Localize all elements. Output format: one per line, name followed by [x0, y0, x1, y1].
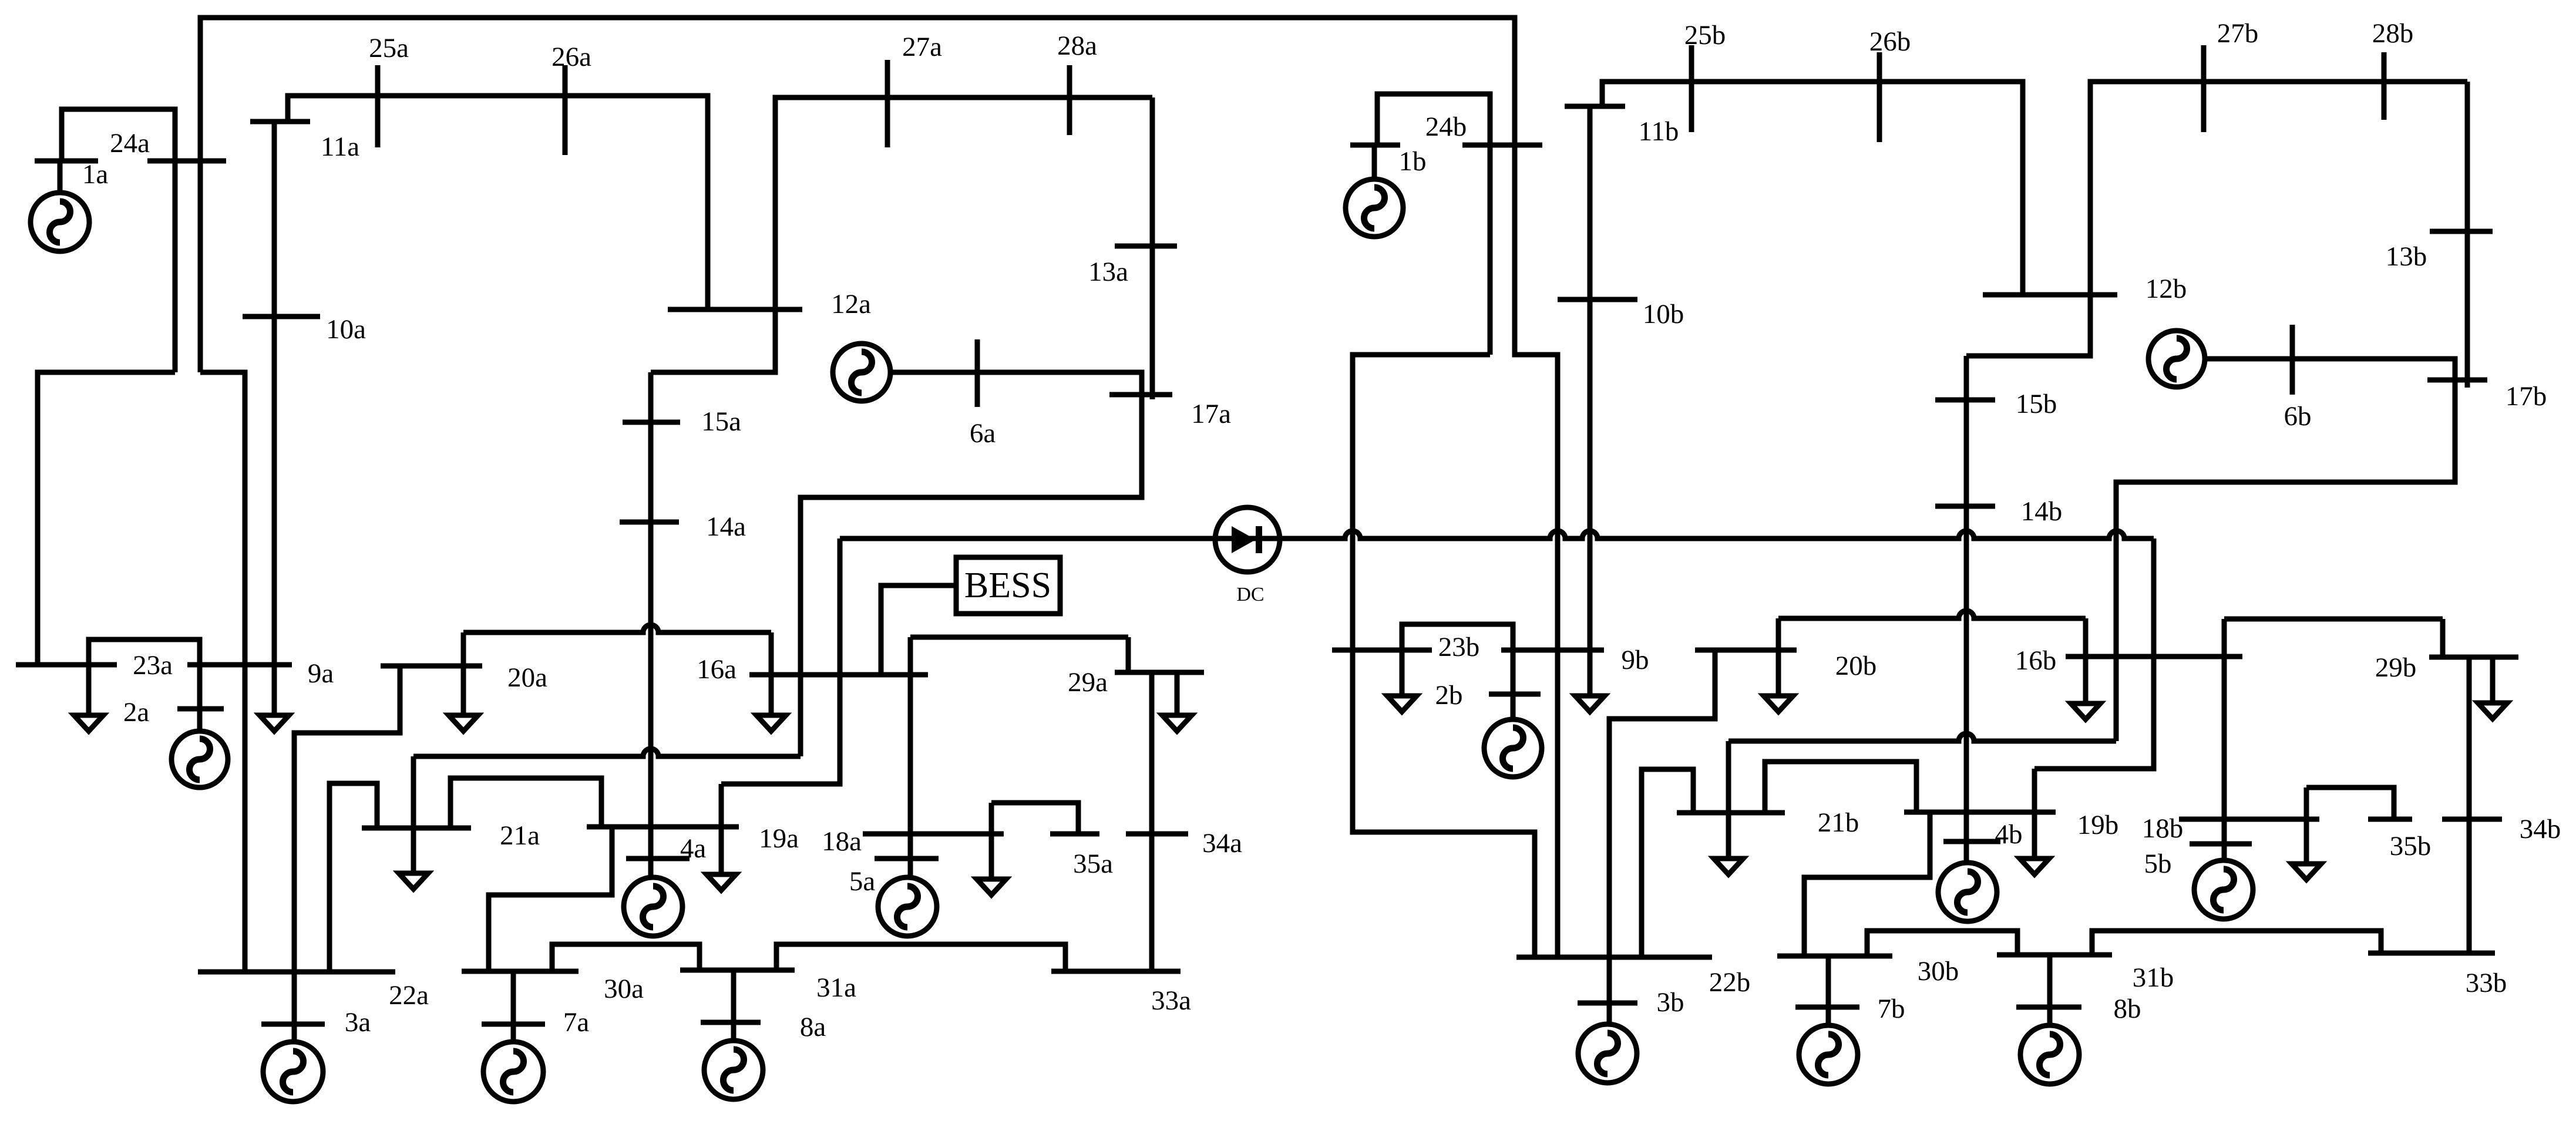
svg-text:25b: 25b	[1684, 20, 1726, 51]
svg-text:13a: 13a	[1088, 257, 1128, 287]
svg-text:3b: 3b	[1657, 987, 1684, 1018]
svg-text:30a: 30a	[604, 974, 644, 1004]
svg-text:24b: 24b	[1425, 112, 1467, 142]
svg-text:29a: 29a	[1068, 667, 1108, 698]
svg-text:17b: 17b	[2506, 381, 2547, 412]
svg-text:27b: 27b	[2217, 18, 2259, 49]
svg-text:7b: 7b	[1878, 994, 1905, 1024]
svg-text:23a: 23a	[133, 650, 173, 681]
svg-text:33a: 33a	[1151, 985, 1191, 1016]
svg-text:21b: 21b	[1818, 807, 1859, 838]
svg-text:5a: 5a	[849, 866, 876, 897]
svg-text:27a: 27a	[902, 32, 942, 62]
svg-text:8a: 8a	[800, 1012, 826, 1042]
svg-text:14b: 14b	[2021, 496, 2063, 527]
svg-text:12a: 12a	[831, 289, 871, 319]
svg-text:3a: 3a	[345, 1007, 371, 1038]
svg-text:35a: 35a	[1073, 849, 1113, 879]
svg-text:19b: 19b	[2077, 810, 2119, 840]
svg-text:26a: 26a	[551, 42, 591, 72]
svg-text:22a: 22a	[389, 980, 429, 1011]
svg-text:35b: 35b	[2390, 831, 2432, 861]
svg-text:11b: 11b	[1639, 116, 1679, 147]
svg-text:24a: 24a	[110, 128, 150, 159]
svg-text:16b: 16b	[2015, 645, 2057, 676]
svg-text:29b: 29b	[2375, 652, 2417, 683]
svg-text:2b: 2b	[1435, 680, 1463, 711]
svg-text:25a: 25a	[369, 33, 409, 63]
svg-text:14a: 14a	[706, 511, 746, 542]
svg-text:11a: 11a	[321, 132, 359, 162]
svg-text:19a: 19a	[759, 823, 799, 854]
svg-text:18b: 18b	[2142, 813, 2184, 844]
svg-text:23b: 23b	[1438, 632, 1480, 662]
svg-text:12b: 12b	[2145, 274, 2187, 304]
svg-text:31a: 31a	[816, 972, 856, 1003]
svg-text:2a: 2a	[123, 697, 150, 728]
svg-text:7a: 7a	[563, 1007, 590, 1038]
svg-text:10a: 10a	[326, 314, 366, 345]
svg-text:1b: 1b	[1399, 146, 1427, 177]
svg-text:26b: 26b	[1869, 26, 1911, 57]
svg-text:30b: 30b	[1918, 956, 1959, 987]
svg-text:28b: 28b	[2372, 18, 2414, 49]
svg-text:33b: 33b	[2466, 968, 2507, 998]
svg-text:21a: 21a	[500, 820, 540, 851]
svg-text:1a: 1a	[82, 159, 109, 190]
svg-text:9b: 9b	[1622, 645, 1649, 675]
svg-text:34b: 34b	[2520, 814, 2561, 844]
svg-text:10b: 10b	[1643, 299, 1684, 329]
svg-text:BESS: BESS	[964, 565, 1051, 605]
svg-text:15b: 15b	[2016, 389, 2057, 419]
svg-text:18a: 18a	[822, 826, 862, 857]
svg-text:6b: 6b	[2284, 401, 2312, 432]
svg-text:28a: 28a	[1057, 31, 1097, 61]
svg-text:15a: 15a	[701, 406, 741, 437]
svg-text:8b: 8b	[2114, 994, 2141, 1024]
svg-text:16a: 16a	[697, 654, 737, 685]
svg-text:4a: 4a	[680, 833, 707, 864]
svg-text:22b: 22b	[1709, 967, 1751, 998]
svg-text:4b: 4b	[1995, 819, 2023, 850]
svg-text:DC: DC	[1236, 584, 1264, 605]
svg-text:5b: 5b	[2144, 849, 2172, 879]
svg-text:17a: 17a	[1191, 399, 1231, 429]
svg-text:9a: 9a	[308, 658, 334, 689]
svg-text:6a: 6a	[970, 418, 996, 449]
svg-text:13b: 13b	[2386, 241, 2427, 272]
svg-text:20a: 20a	[507, 662, 547, 693]
svg-text:31b: 31b	[2133, 962, 2174, 993]
svg-text:34a: 34a	[1202, 828, 1242, 859]
svg-text:20b: 20b	[1835, 651, 1877, 681]
